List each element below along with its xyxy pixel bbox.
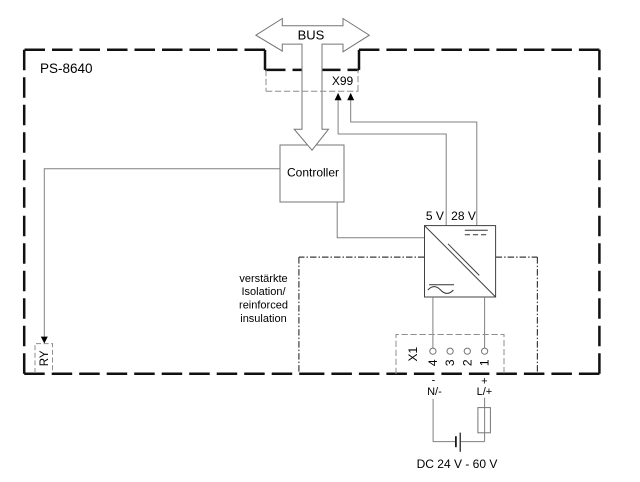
terminal block X1 (thin dashed box) (396, 335, 504, 375)
arrowhead into RY (41, 337, 48, 344)
wire 5V feed to X99 (338, 100, 446, 226)
svg-text:L/+: L/+ (477, 386, 493, 398)
svg-text:Controller: Controller (287, 166, 339, 180)
label verstaerkte Isolation / reinforced insulation (239, 273, 288, 325)
wire converter to terminal 1 (484, 297, 486, 348)
terminal circle 1 (482, 348, 488, 354)
insulation boundary (dash-dot box) (299, 257, 538, 373)
svg-text:-: - (432, 375, 436, 387)
terminal circle 4 (430, 348, 436, 354)
module border PS-8640 (thick dashed) (24, 50, 599, 374)
svg-text:verstärkte: verstärkte (239, 273, 287, 285)
svg-text:5 V: 5 V (426, 209, 444, 223)
wire N/- to battery (433, 399, 455, 442)
svg-text:1: 1 (478, 359, 492, 366)
wire controller to converter (337, 202, 424, 238)
svg-text:PS-8640: PS-8640 (40, 61, 93, 76)
terminal circle 3 (447, 348, 453, 354)
arrowhead into X99 (28V) (347, 93, 354, 100)
arrowhead into X99 (5V) (335, 93, 342, 100)
svg-text:2: 2 (460, 359, 474, 366)
relay RY (thin dashed box) (35, 344, 53, 373)
wire L/+ through fuse (484, 398, 486, 442)
battery BT1 long plate (459, 433, 461, 452)
wire 28V feed to X99 (351, 100, 477, 226)
svg-text:RY: RY (39, 350, 51, 366)
svg-text:insulation: insulation (240, 313, 286, 325)
svg-text:reinforced: reinforced (239, 300, 288, 312)
controller U1 box (280, 145, 344, 202)
svg-text:X99: X99 (332, 74, 354, 88)
svg-text:Isolation/: Isolation/ (241, 286, 286, 298)
svg-text:28 V: 28 V (451, 209, 476, 223)
fuse F1 (478, 408, 491, 433)
BUS arrow (double headed with down-arrow to controller) (256, 19, 369, 151)
svg-text:DC 24 V - 60 V: DC 24 V - 60 V (417, 457, 498, 471)
power supply converter U2 (425, 226, 496, 297)
wire converter to terminal 4 (432, 297, 434, 348)
svg-text:4: 4 (426, 359, 440, 366)
svg-text:3: 3 (443, 359, 457, 366)
DC symbol (top right) (465, 229, 488, 231)
battery BT1 short plate (455, 436, 457, 447)
AC symbol (bottom left) (429, 284, 454, 286)
svg-text:N/-: N/- (427, 386, 442, 398)
wire battery to fuse (461, 441, 485, 443)
svg-text:BUS: BUS (298, 28, 325, 43)
svg-text:X1: X1 (406, 347, 420, 362)
wire controller to RY (44, 169, 280, 337)
connector X99 (thin dashed box) (266, 70, 358, 92)
terminal circle 2 (464, 348, 470, 354)
